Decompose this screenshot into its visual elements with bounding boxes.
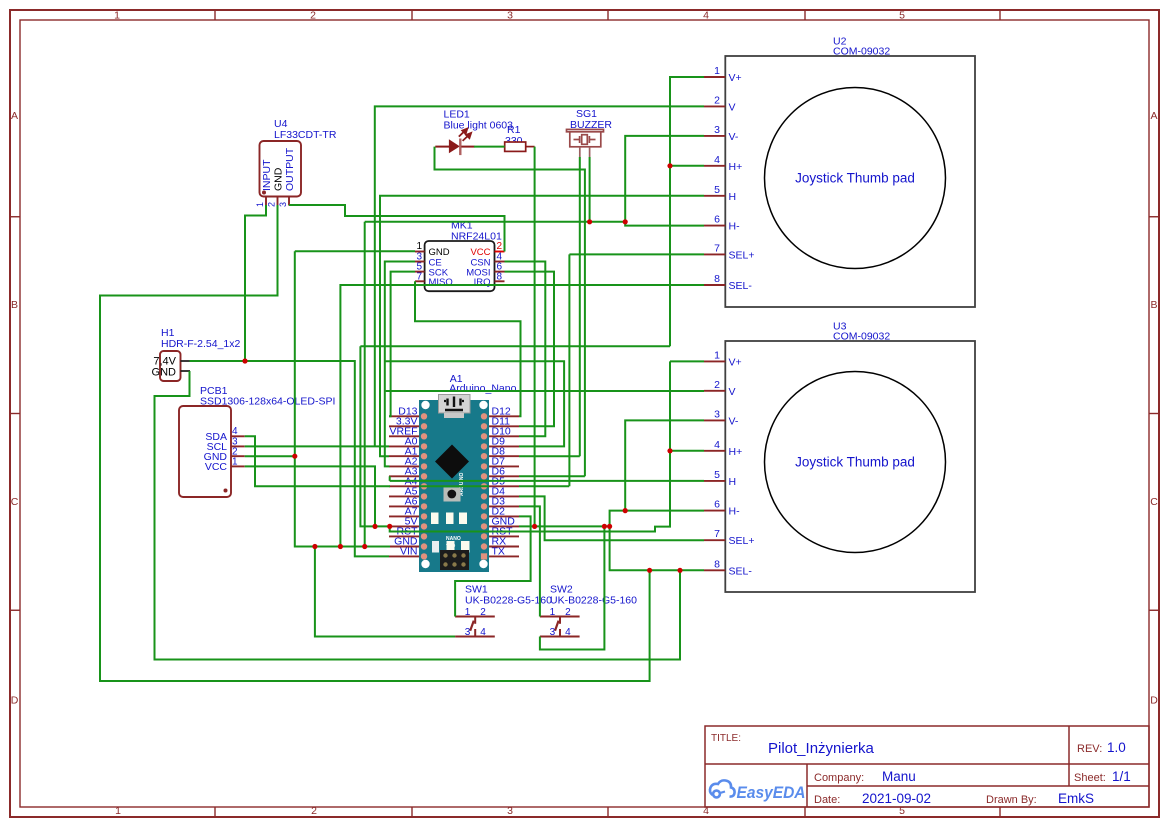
wire U3 SEL- branch [610,526,704,570]
wire MK1 MOSI to D11 [505,272,555,427]
svg-text:A: A [1150,110,1157,122]
svg-text:8: 8 [714,558,720,570]
svg-text:1: 1 [232,457,238,468]
svg-text:V-: V- [729,131,739,143]
wire SW1 pin3 to GND row [315,547,455,637]
svg-text:Company:: Company: [814,772,864,784]
wire MK1 MISO to D12 [415,281,521,416]
junction R1 on GND row [532,524,537,529]
wire D2 to SW1 [455,516,530,616]
svg-text:6: 6 [714,214,720,226]
svg-text:3: 3 [507,805,513,817]
svg-text:IRQ: IRQ [474,277,491,288]
wire PCB1 SDA to A4 [245,436,390,486]
svg-text:1: 1 [115,805,121,817]
svg-text:TITLE:: TITLE: [711,733,741,744]
svg-text:H: H [729,476,737,488]
wire buzzer pin1 to D8 [579,157,581,456]
header H1 [152,327,241,381]
wire U3 V row [386,390,704,392]
svg-text:TX: TX [492,546,505,558]
svg-text:4: 4 [714,439,720,451]
svg-text:Drawn By:: Drawn By: [986,794,1037,806]
wire U4 pin3 OUTPUT to MK1 VCC [289,205,505,252]
svg-text:3: 3 [550,627,556,638]
junction U3 H-/SEL- riser on GND row [607,524,612,529]
svg-text:A: A [11,110,18,122]
svg-text:4: 4 [232,426,238,437]
svg-text:GND: GND [152,367,177,379]
switch SW1 [455,584,552,639]
wire A4-D5 across board [419,485,489,487]
wire CE branch to D9 [385,361,564,446]
wire 5V down-left [360,346,390,526]
wire D3 to SW2 [519,506,540,616]
svg-text:4: 4 [714,154,720,166]
svg-text:H-: H- [729,506,741,518]
junction SEL- row right riser [677,568,682,573]
svg-text:5: 5 [714,184,720,196]
svg-text:5: 5 [899,10,905,22]
wire GND horizontal 221.8 [365,221,626,223]
svg-text:SEL+: SEL+ [729,535,755,547]
svg-text:C: C [11,496,19,508]
wire U2 H+ stub to dot [670,165,704,167]
svg-text:LF33CDT-TR: LF33CDT-TR [274,129,337,141]
junction 7.4V net at H1 [242,358,247,363]
small caps [431,513,439,525]
junction OLED VCC on 5V row [372,524,377,529]
junction SEL- row left riser [647,568,652,573]
wire D6 row [519,475,585,477]
wire U2 H down to A1 [380,196,704,456]
svg-text:V: V [729,101,736,113]
svg-text:3: 3 [507,10,513,22]
svg-text:Joystick Thumb pad: Joystick Thumb pad [795,171,915,186]
svg-text:1.0: 1.0 [1107,740,1126,755]
wire MK1 CSN to D10 [505,262,546,437]
wire U3 H row [390,480,704,482]
wire U4 pin2 GND loop left-bottom to SEL- dot [100,205,650,681]
svg-text:1: 1 [714,349,720,361]
svg-text:B: B [11,299,18,311]
svg-text:VIN: VIN [400,546,418,558]
svg-text:2: 2 [497,241,503,252]
wire U2 SEL- net [340,285,704,547]
svg-text:Pilot_Inżynierka: Pilot_Inżynierka [768,740,875,757]
svg-text:7: 7 [416,272,422,283]
svg-text:1: 1 [465,607,471,618]
wire H1 GND loop bottom [155,371,681,660]
svg-text:SEL+: SEL+ [729,249,755,261]
svg-text:V+: V+ [729,72,742,84]
LED1 [435,109,513,156]
svg-text:EmkS: EmkS [1058,791,1094,806]
svg-text:1/1: 1/1 [1112,769,1131,784]
junction U3 H+ on 5V riser [667,448,672,453]
wire U2 V down to A0 [375,106,704,446]
svg-text:3: 3 [714,124,720,136]
wire MK1 SCK to D13 [389,272,415,417]
svg-text:OUTPUT: OUTPUT [284,147,296,191]
svg-text:4: 4 [703,10,709,22]
svg-text:2021-09-02: 2021-09-02 [862,791,931,806]
svg-text:EasyEDA: EasyEDA [737,783,806,802]
svg-text:HDR-F-2.54_1x2: HDR-F-2.54_1x2 [161,338,241,350]
wire LED loop to D6 [435,147,585,477]
svg-text:6: 6 [714,499,720,511]
svg-text:H-: H- [729,221,741,233]
svg-text:1: 1 [416,241,422,252]
svg-text:4: 4 [565,627,571,638]
svg-text:2: 2 [565,607,571,618]
wire SW2 gnd loop [540,526,605,649]
junction GND riser on GND row [362,544,367,549]
bottom header [440,550,469,570]
joystick U3 [704,321,975,593]
svg-text:2: 2 [714,94,720,106]
svg-text:Arduino_Nano: Arduino_Nano [449,382,516,394]
resistor R1 [505,124,535,151]
svg-text:1: 1 [114,10,120,22]
svg-text:3: 3 [278,202,288,207]
svg-text:INPUT: INPUT [261,159,273,191]
svg-text:REV:: REV: [1077,743,1102,755]
svg-text:2: 2 [310,10,316,22]
svg-text:8: 8 [497,272,503,283]
svg-text:8: 8 [714,273,720,285]
wire U2 H- jog [625,222,704,226]
wire 7.4V main to VIN [190,361,390,556]
svg-text:Date:: Date: [814,794,840,806]
junction buzzer pin2 on GND line [587,219,592,224]
wire PCB1 VCC to 5V row [245,466,375,526]
NRF24L01 MK1 [415,220,505,292]
junction SW1 gnd riser [312,544,317,549]
svg-text:MISO: MISO [429,277,453,288]
svg-text:7: 7 [714,528,720,540]
svg-text:1: 1 [714,65,720,77]
junction SW2 gnd riser on GND row [602,524,607,529]
svg-text:Blue light 0603: Blue light 0603 [444,120,514,132]
wire U2 V- [625,136,704,222]
svg-text:3: 3 [714,408,720,420]
wire U2 V+ vertical [670,77,704,346]
svg-text:B: B [1150,299,1157,311]
svg-text:2: 2 [267,202,277,207]
wire GND vertical net [364,222,366,547]
wire R1 down to GND row [534,147,536,527]
wire U3 H- branch [610,511,704,527]
svg-text:1: 1 [255,202,265,207]
svg-text:7: 7 [714,242,720,254]
wire A3 hook [389,476,391,481]
wire D4 to U3 SEL+ [519,496,704,540]
Arduino Nano A1 [389,373,519,572]
wire D5 row to riser [519,485,569,487]
svg-text:C: C [1150,496,1158,508]
junction U2 V- on GND line [623,219,628,224]
svg-text:1: 1 [550,607,556,618]
wire MK1 GND to riser [295,250,415,252]
EasyEDA logo [710,780,806,802]
svg-text:UK-B0228-G5-160: UK-B0228-G5-160 [550,595,637,607]
wire U3 H+ [670,450,704,452]
wire U3 V- [625,420,704,510]
board body [419,400,489,572]
svg-text:V-: V- [729,415,739,427]
buzzer SG1 [567,108,613,157]
junction PCB1 GND riser [292,454,297,459]
junction U3 V- on H- row [623,508,628,513]
pin pads [421,413,487,560]
wire MK1 CE down [385,262,415,467]
wire buzzer pin2 to GND line [589,157,591,222]
svg-text:Manu: Manu [882,769,916,784]
svg-text:GND: GND [273,167,285,191]
svg-text:Sheet:: Sheet: [1074,772,1106,784]
svg-text:H: H [729,191,737,203]
svg-text:SEL-: SEL- [729,565,753,577]
usb connector [439,395,471,414]
svg-text:D: D [1150,695,1158,707]
svg-text:2: 2 [311,805,317,817]
title block [705,726,1149,807]
junction U2 H+ on 5V riser [667,163,672,168]
wire U2 SEL+ to riser [569,253,704,255]
wire PCB1 GND to junction [245,455,295,457]
wire PCB1 SCL to A0 [245,445,389,447]
junction 5V pin [387,524,392,529]
svg-text:2: 2 [714,379,720,391]
junction SEL- riser on GND row [338,544,343,549]
wire 5V jog under board [390,361,670,531]
wire D8 row [519,455,580,457]
svg-text:H+: H+ [729,446,743,458]
wire GND row right [519,525,610,527]
wire riser at 569 [568,254,570,486]
wire U4 pin1 to 7.4V net [245,205,266,361]
wire riser 294.8 down to GND row [295,251,390,546]
wire LED to R1 [474,146,505,148]
OLED PCB1 [179,385,335,497]
svg-text:D: D [11,695,19,707]
joystick U2 [704,36,975,308]
svg-text:2: 2 [480,607,486,618]
regulator U4 [255,118,337,207]
switch SW2 [540,584,637,639]
svg-text:H+: H+ [729,161,743,173]
svg-text:V+: V+ [729,356,742,368]
wire 5V line horizontal [360,345,670,347]
svg-text:4: 4 [480,627,486,638]
svg-text:V: V [729,386,736,398]
chip [435,445,469,479]
svg-text:3: 3 [465,627,471,638]
svg-text:VCC: VCC [205,461,228,473]
svg-text:Joystick Thumb pad: Joystick Thumb pad [795,455,915,470]
svg-text:SEL-: SEL- [729,280,753,292]
wire U3 V+ [670,360,704,362]
rst button [444,488,461,502]
svg-text:5: 5 [714,469,720,481]
